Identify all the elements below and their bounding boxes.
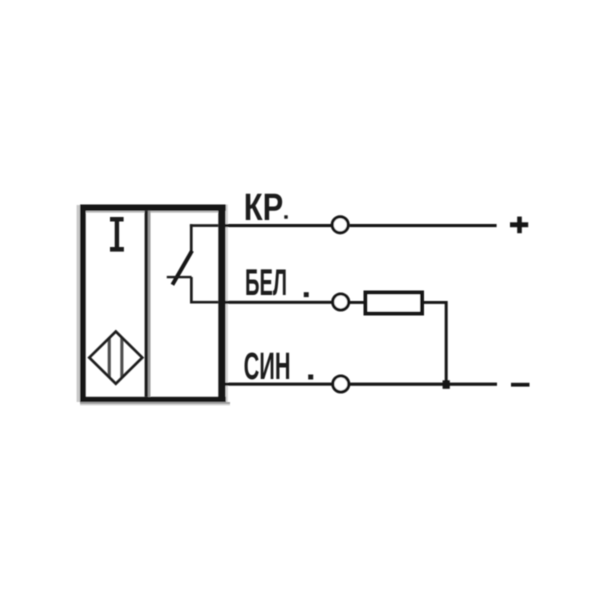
resistor R1 — [366, 293, 423, 314]
label I (inductive element) — [110, 217, 124, 252]
wire resistor to corner — [424, 301, 447, 304]
terminal circle SIN — [333, 376, 349, 392]
junction node dot — [443, 380, 450, 389]
terminal circle KR — [332, 217, 348, 233]
svg-text:СИН: СИН — [244, 346, 291, 388]
wire vertical down to SIN line — [445, 301, 448, 384]
switch upper lead — [190, 224, 218, 227]
compartment divider — [145, 211, 148, 397]
wire SIN terminal to minus — [350, 383, 497, 386]
minus sign — [511, 383, 530, 387]
wire KR terminal to plus — [350, 224, 497, 227]
svg-text:КР: КР — [244, 187, 283, 229]
switch fixed-contact tick — [167, 276, 192, 278]
terminal circle BEL — [333, 294, 349, 310]
plus sign — [510, 217, 528, 234]
wire BEL terminal to resistor — [350, 301, 365, 304]
wire KR from box to terminal — [226, 224, 332, 227]
switch contact S1 — [167, 224, 219, 303]
wire BEL from box to terminal — [226, 301, 333, 304]
sensor body box U1 — [77, 205, 230, 406]
svg-text:БЕЛ: БЕЛ — [245, 262, 287, 303]
switch lower lead — [190, 277, 193, 303]
switch blade — [172, 251, 192, 285]
non-contact sensor diamond symbol — [89, 330, 142, 386]
wire SIN from box to terminal — [226, 383, 333, 386]
